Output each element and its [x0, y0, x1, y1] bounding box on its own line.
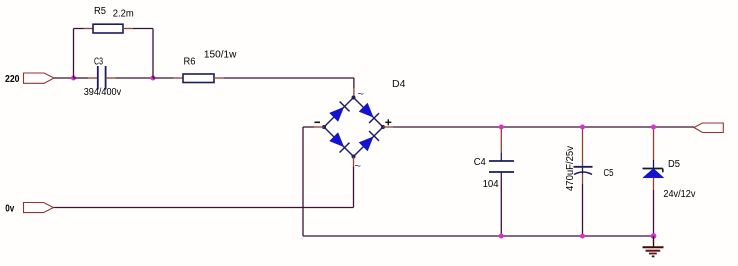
- pin C5.2: [582, 174, 584, 184]
- wire C4 to bottom rail: [500, 180, 502, 236]
- wire minus to bottom rail: [303, 126, 314, 128]
- wire R5 right riser: [133, 28, 153, 30]
- pin D4.plus: [383, 126, 393, 128]
- svg-text:C4: C4: [474, 157, 486, 168]
- pin C3.2: [106, 77, 116, 79]
- ground symbol: [643, 236, 664, 256]
- port P1 (220 input connector): [24, 73, 55, 83]
- wire bridge bottom to 0v row: [353, 167, 355, 208]
- svg-text:470uF/25v: 470uF/25v: [565, 146, 576, 191]
- bridge vertex pin dots: [352, 96, 356, 100]
- svg-text:~: ~: [355, 161, 361, 173]
- wire bottom rail: [303, 235, 654, 237]
- diode D4c (left to bottom): [330, 133, 344, 147]
- pin R5.1: [84, 28, 94, 30]
- svg-text:2.2m: 2.2m: [113, 9, 134, 20]
- pin R5.2: [123, 28, 133, 30]
- svg-text:D5: D5: [668, 159, 680, 170]
- capacitor C3 plates: [97, 66, 99, 90]
- diode D4b (top to right): [359, 103, 373, 117]
- diode D4a (left to top): [330, 107, 344, 121]
- resistor R5 body: [93, 24, 123, 33]
- svg-text:R5: R5: [94, 6, 106, 17]
- diode D4d (bottom to right): [359, 137, 373, 151]
- svg-text:~: ~: [358, 89, 364, 101]
- wire C5 to bottom rail: [582, 184, 584, 236]
- pin D4.ac2 (bottom): [353, 157, 355, 167]
- svg-text:24v/12v: 24v/12v: [663, 189, 695, 200]
- label - (minus terminal): [315, 121, 321, 123]
- zener diode D5: [643, 169, 664, 178]
- svg-text:394/400v: 394/400v: [84, 87, 122, 98]
- capacitor C5 top plate: [574, 166, 593, 168]
- svg-text:D4: D4: [392, 79, 406, 90]
- pin D5.cathode: [653, 127, 655, 160]
- port P2 (0v connector): [24, 203, 54, 213]
- wire D5 to bottom rail: [653, 190, 655, 236]
- junction C4 bottom (501,236): [499, 234, 504, 239]
- pin C4.2: [500, 172, 502, 180]
- capacitor C4 plates: [489, 160, 514, 162]
- wire + rail: [393, 126, 694, 128]
- svg-text:150/1w: 150/1w: [204, 50, 237, 61]
- svg-text:0v: 0v: [5, 203, 14, 215]
- svg-text:R6: R6: [184, 57, 196, 68]
- wire 0v row: [54, 207, 354, 209]
- junction C4 top (501,127): [499, 125, 504, 130]
- resistor R6 body: [183, 74, 214, 83]
- svg-text:C5: C5: [604, 168, 614, 179]
- junction C5 bottom (582,236): [580, 234, 585, 239]
- pin D4.minus: [314, 126, 324, 128]
- svg-text:220: 220: [5, 73, 20, 85]
- svg-text:C3: C3: [94, 57, 103, 68]
- port P3 (DC output connector): [694, 123, 723, 133]
- wire C3 to node B: [116, 77, 154, 79]
- capacitor C5 curved plate: [574, 172, 592, 174]
- pin C5.1: [582, 127, 584, 167]
- junction C5 top (582,127): [580, 125, 585, 130]
- pin C3.1: [88, 77, 98, 79]
- label + (plus terminal): [385, 121, 391, 123]
- pin D4.ac1 (top): [353, 88, 355, 98]
- pin R6.1: [174, 77, 184, 79]
- svg-text:104: 104: [483, 179, 499, 190]
- wire node A to C3 pin: [74, 77, 89, 79]
- junction node A (73.5,78): [71, 76, 76, 81]
- pin D5.anode: [653, 178, 655, 190]
- wire R5 left riser: [73, 29, 75, 79]
- wire R6 to bridge top: [224, 77, 354, 79]
- wire node B to R6: [153, 77, 174, 79]
- bridge rectifier D4: [315, 89, 392, 173]
- junction D5 top (653.5,127): [651, 125, 656, 130]
- wire 220 row: connector to node A: [54, 77, 74, 79]
- junction node B (153,78): [151, 76, 156, 81]
- pin R6.2: [214, 77, 224, 79]
- junction D5 bottom / ground node (653.5,236): [651, 233, 657, 239]
- pin C4.1: [500, 127, 502, 153]
